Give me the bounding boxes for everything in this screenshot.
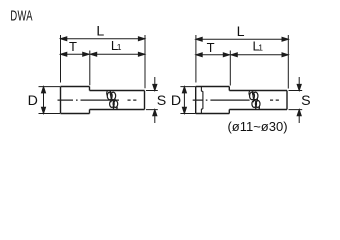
- svg-text:D: D: [28, 93, 38, 109]
- D dimension: [180, 87, 195, 114]
- T dimension line: [196, 54, 230, 56]
- part outline left drawing: big D section: [61, 87, 90, 114]
- svg-text:S: S: [157, 93, 166, 109]
- centerline left drawing: [58, 99, 137, 101]
- L dimension line: [61, 38, 145, 40]
- svg-text:1: 1: [117, 42, 122, 52]
- S dimension: [289, 91, 303, 110]
- L dimension line: [196, 38, 288, 40]
- dimension lines left drawing: [39, 35, 158, 123]
- break symbol right drawing: [249, 91, 260, 110]
- centerline right drawing: [193, 99, 279, 101]
- svg-text:T: T: [69, 39, 77, 54]
- D dimension: [39, 87, 61, 114]
- part outline right drawing: small S section: [229, 91, 287, 110]
- svg-text:S: S: [301, 93, 310, 109]
- part outline left drawing: small S section: [90, 91, 145, 110]
- svg-text:T: T: [207, 40, 215, 55]
- L1 dimension line: [90, 53, 144, 55]
- T dimension line: [61, 53, 90, 55]
- part outline right drawing: big D section with left collar groove: [196, 87, 230, 114]
- svg-text:D: D: [171, 93, 181, 109]
- shoulder step D to S (right drawing): [228, 87, 230, 114]
- svg-text:1: 1: [258, 43, 263, 53]
- svg-text:L: L: [237, 24, 245, 40]
- undercut groove near left end (right drawing): [201, 87, 203, 114]
- extension lines: [61, 35, 146, 88]
- svg-text:DWA: DWA: [10, 8, 33, 25]
- extension lines: [196, 35, 288, 89]
- L1 dimension line: [231, 54, 288, 56]
- svg-text:(ø11~ø30): (ø11~ø30): [227, 119, 287, 134]
- S dimension: [146, 91, 158, 110]
- dimension lines right drawing: [180, 35, 302, 123]
- break symbol left drawing: [107, 91, 118, 110]
- svg-text:L: L: [96, 24, 104, 40]
